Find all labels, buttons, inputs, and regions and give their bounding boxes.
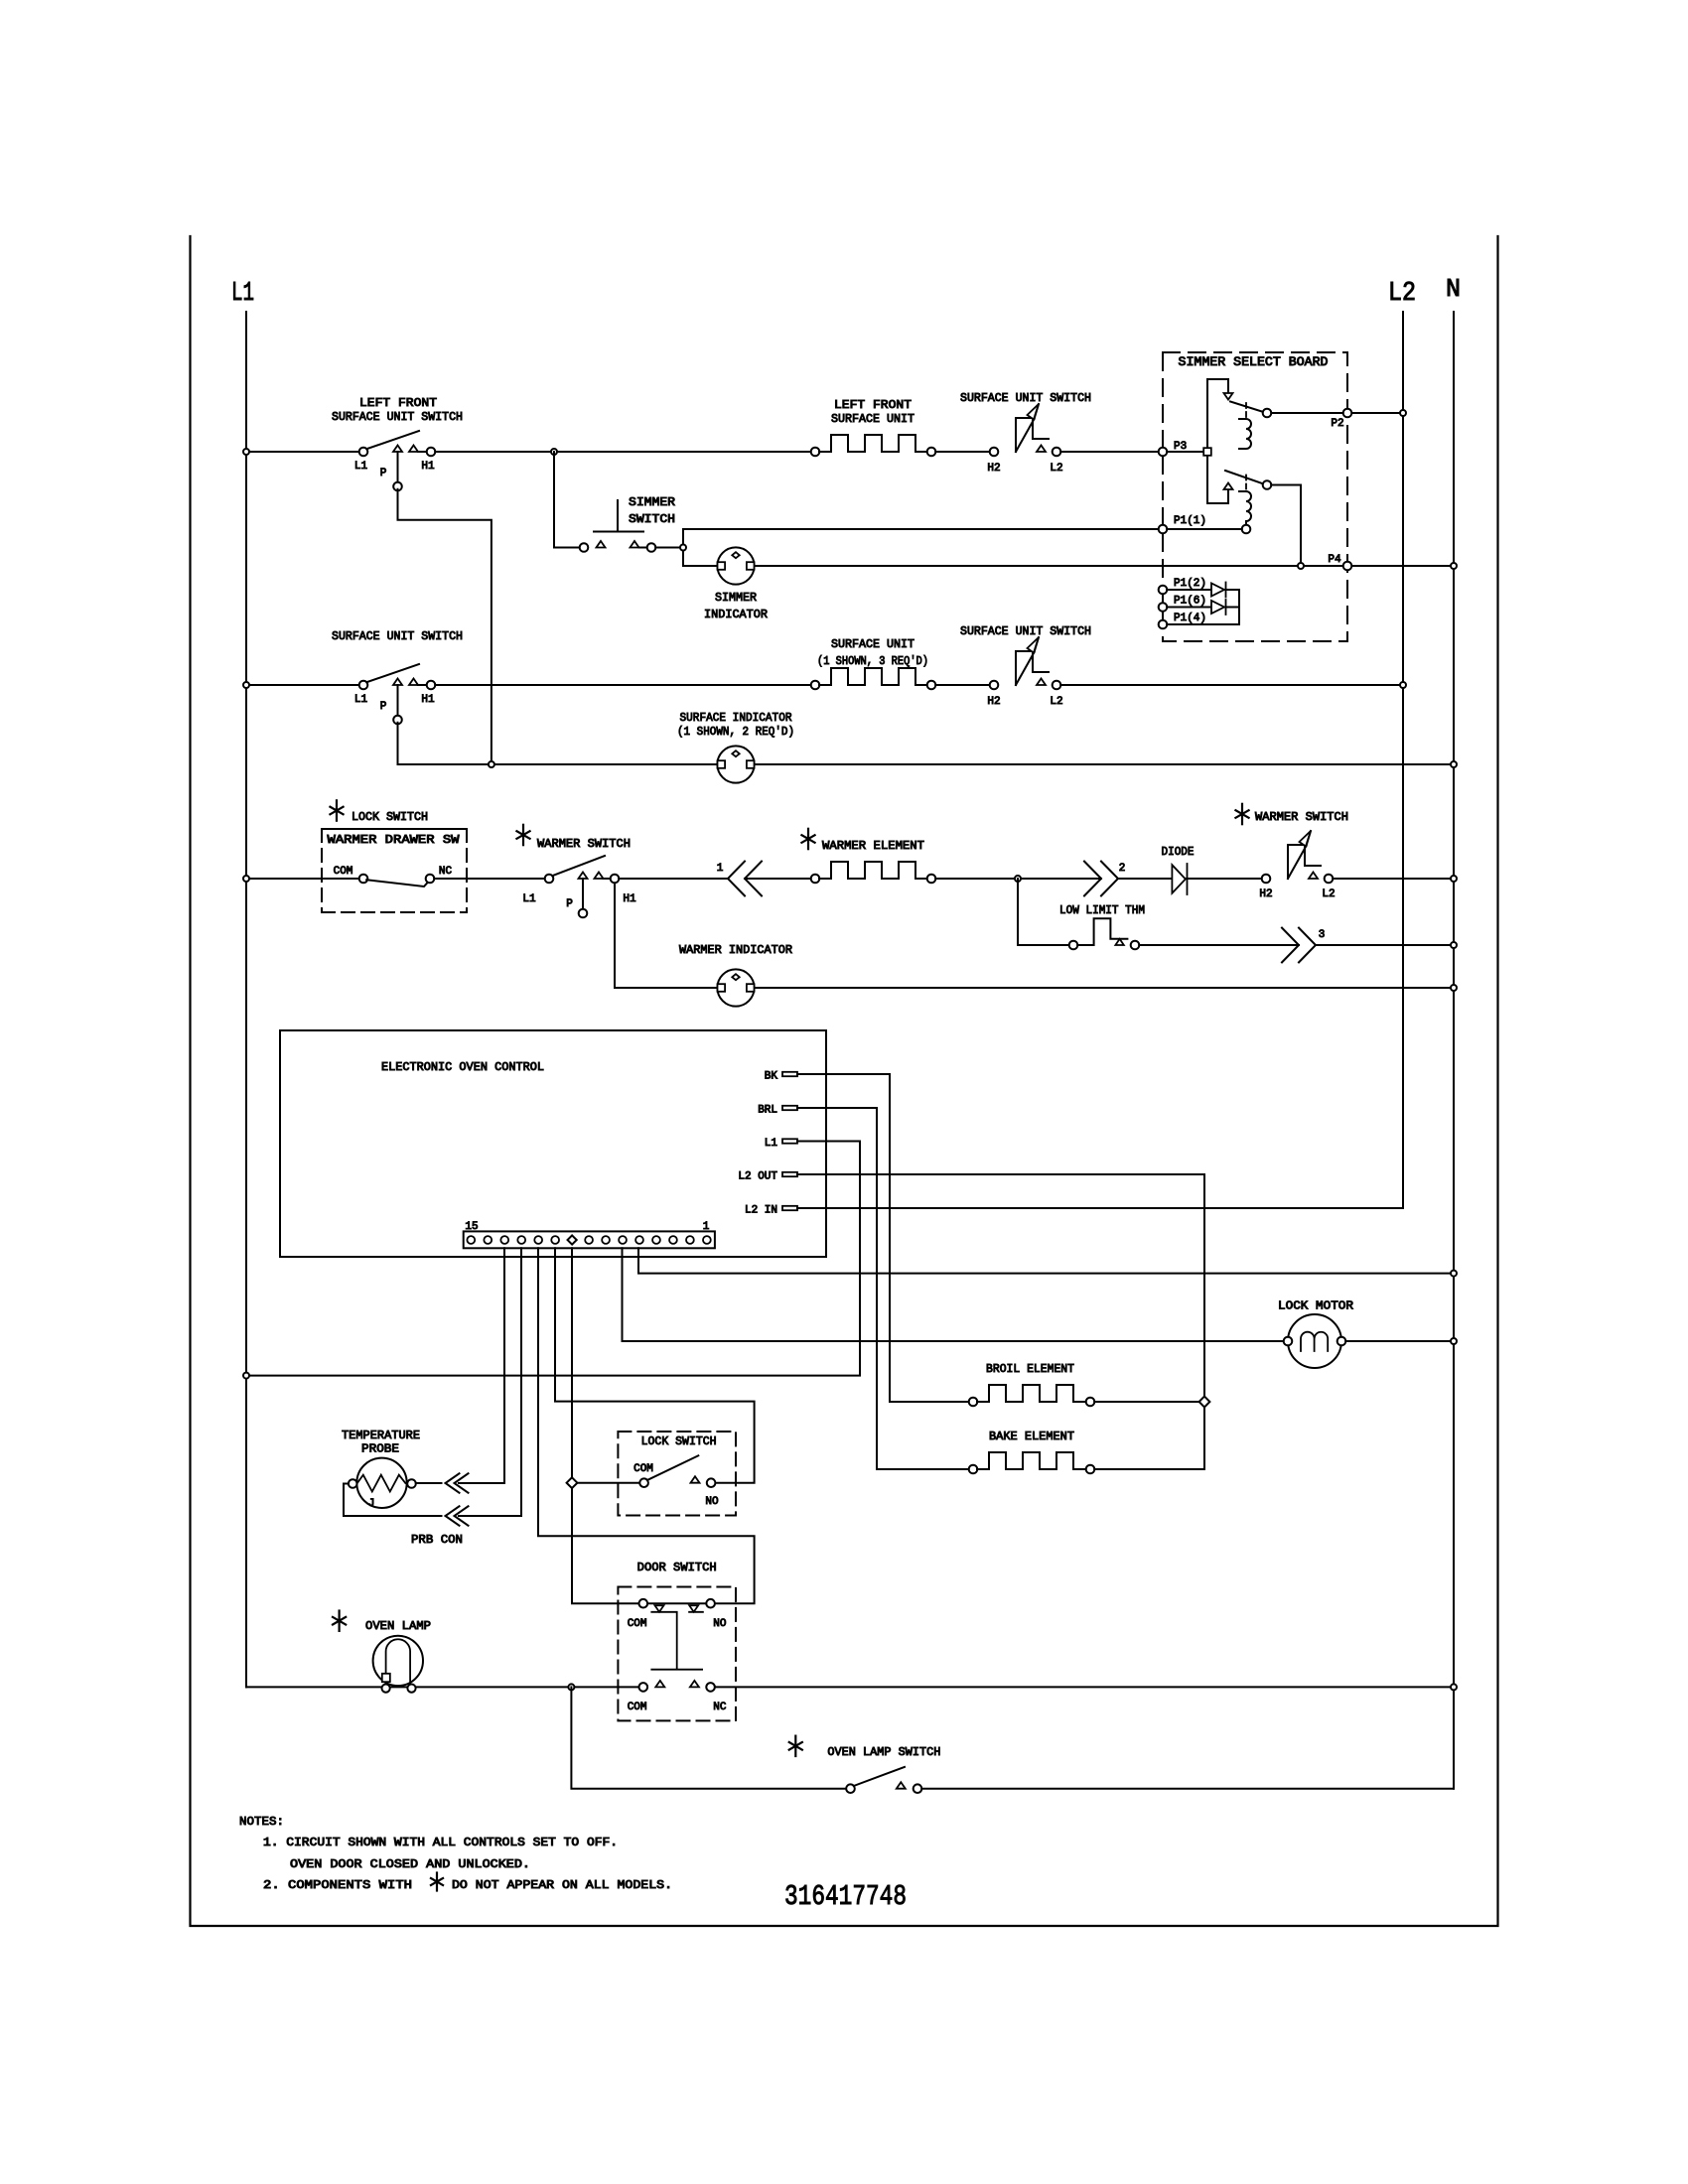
svg-text:H1: H1 [421, 461, 435, 473]
node surface indicator to N bus [1451, 761, 1457, 767]
switch SW5 triangle contact [1037, 679, 1046, 686]
wire relay K1 to P2 [1271, 412, 1403, 414]
wire diode bus vertical [1238, 590, 1240, 624]
svg-text:SURFACE UNIT SWITCH: SURFACE UNIT SWITCH [332, 629, 463, 643]
heating element E3 warmer element [819, 862, 928, 879]
switch SW8 L2 terminal [1325, 875, 1334, 884]
svg-text:J: J [368, 1498, 375, 1510]
wire simmer junction to board P1(1) [683, 528, 1159, 530]
wire lock motor to N bus [1345, 1340, 1454, 1342]
oven lamp left terminal [382, 1685, 390, 1693]
lock switch dashed enclosure [618, 1432, 736, 1516]
switch SW6 COM terminal [359, 875, 368, 884]
wire P1(1) to relay K2 coil [1167, 528, 1241, 530]
node relay2 arm junction on P4 wire [1298, 563, 1304, 569]
node square P3 riser junction [1203, 448, 1211, 456]
wire row2 from L1 to switch [246, 684, 359, 686]
switch SW9 arm [647, 1455, 699, 1480]
heating element E3 left terminal [811, 875, 820, 884]
wire diode D2 to bus [1226, 607, 1240, 609]
switch SW2 triangle contact [1037, 446, 1046, 453]
svg-text:DOOR SWITCH: DOOR SWITCH [637, 1561, 717, 1574]
wire warmer element to connector 2 [935, 878, 1101, 880]
switch SW2 surface unit thermostat symbol [1016, 418, 1049, 452]
svg-text:OVEN LAMP SWITCH: OVEN LAMP SWITCH [827, 1745, 940, 1759]
svg-text:L2: L2 [1050, 696, 1062, 708]
svg-text:L2 IN: L2 IN [745, 1205, 777, 1217]
node simmer junction [680, 545, 686, 551]
svg-text:COM: COM [628, 1702, 647, 1713]
wire pin10 to lock switch NO [555, 1248, 755, 1482]
svg-text:H2: H2 [987, 696, 1000, 708]
node row1 junction to simmer branch [551, 449, 557, 455]
wire pin9 tap to lock COM [577, 1482, 639, 1484]
svg-text:BAKE ELEMENT: BAKE ELEMENT [989, 1430, 1074, 1443]
svg-text:2. COMPONENTS WITH: 2. COMPONENTS WITH [263, 1878, 412, 1892]
oven lamp right terminal [407, 1685, 415, 1693]
wire BRL to bake element [797, 1108, 877, 1469]
svg-text:P1(4): P1(4) [1174, 613, 1206, 624]
simmer select board title [1172, 353, 1335, 369]
thermal switch low limit thermostat [1069, 941, 1078, 950]
switch SW9 lock switch COM terminal [639, 1478, 648, 1487]
relay K2 pivot terminal [1263, 480, 1272, 489]
wire simmer indicator to P4 and N [755, 565, 1454, 567]
switch SW7 warmer switch [545, 875, 554, 884]
wire warmer indicator to N bus [755, 987, 1454, 989]
svg-text:P1(2): P1(2) [1174, 578, 1206, 590]
node P2 to L2 bus [1400, 410, 1406, 416]
wire drawer switch NC to warmer switch L1 [434, 878, 544, 880]
svg-text:INDICATOR: INDICATOR [704, 608, 768, 621]
svg-text:SURFACE UNIT: SURFACE UNIT [831, 637, 914, 651]
svg-text:1. CIRCUIT SHOWN WITH ALL CON: 1. CIRCUIT SHOWN WITH ALL CONTROLS SET T… [263, 1836, 618, 1849]
wire element to H2 [935, 451, 989, 453]
svg-text:L2: L2 [1050, 463, 1062, 475]
relay K2 mechanical link dashed [1245, 476, 1247, 491]
wire row1 P branch down and right [398, 489, 492, 760]
relay K1 mechanical link dashed [1245, 403, 1247, 417]
switch SW2 L2 terminal [1053, 448, 1061, 457]
temperature probe left terminal [349, 1479, 357, 1488]
switch SW10 mechanical link [651, 1612, 703, 1670]
svg-text:H1: H1 [623, 893, 636, 905]
temperature probe RT1 [356, 1458, 406, 1508]
node row3 on L1 bus [243, 876, 249, 882]
wire pin13 to temperature probe top [459, 1248, 504, 1483]
switch SW4 surface unit switch [359, 681, 368, 690]
connector PRB top chevrons [446, 1473, 460, 1492]
svg-text:NC: NC [713, 1702, 727, 1713]
svg-text:P4: P4 [1328, 554, 1341, 566]
svg-text:PROBE: PROBE [361, 1442, 399, 1456]
relay K1 top wire [1207, 379, 1228, 393]
wire lamp row drop to oven lamp switch [571, 1687, 846, 1788]
wire diode D1 to bus [1226, 589, 1240, 591]
svg-text:L1: L1 [354, 461, 368, 473]
bake element E5 right terminal [1086, 1465, 1095, 1474]
wire simmer switch to junction [655, 547, 683, 549]
wire row1 from L1 to switch [246, 451, 359, 453]
connector plug 3 chevrons [1282, 928, 1299, 963]
switch SW11 oven lamp switch [846, 1784, 855, 1793]
switch SW10 lower triangles [655, 1681, 664, 1688]
diode D2 [1211, 601, 1224, 614]
lock motor left terminal [1284, 1337, 1293, 1346]
relay K2 armature arm [1225, 471, 1264, 484]
wire pin5 to N bus [638, 1248, 1454, 1273]
svg-text:(1 SHOWN, 2 REQ'D): (1 SHOWN, 2 REQ'D) [677, 725, 794, 739]
svg-text:L2: L2 [1322, 888, 1335, 900]
svg-text:(1 SHOWN, 3 REQ'D): (1 SHOWN, 3 REQ'D) [817, 654, 928, 668]
relay K1 armature arm [1230, 402, 1264, 413]
warmer drawer switch dashed enclosure [322, 829, 467, 912]
wire EOC L1 to L1 bus [250, 1142, 860, 1376]
switch SW6 warmer drawer switch arm [366, 880, 428, 887]
node P4 to N bus [1451, 563, 1457, 569]
svg-text:TEMPERATURE: TEMPERATURE [342, 1429, 420, 1442]
svg-text:SIMMER: SIMMER [715, 591, 757, 605]
terminal P2 on board edge [1343, 409, 1352, 418]
svg-text:P: P [380, 468, 387, 479]
wire warmer switch H1 to connector 1 [619, 878, 728, 880]
switch SW8 triangle contact [1309, 873, 1318, 880]
svg-text:WARMER SWITCH: WARMER SWITCH [537, 837, 631, 851]
svg-text:LEFT FRONT: LEFT FRONT [834, 398, 912, 412]
node lock motor to N bus [1451, 1338, 1457, 1344]
bake element E5 left terminal [969, 1465, 978, 1474]
node row2 to L2 bus [1400, 682, 1406, 688]
connector plug 1 chevrons [728, 862, 745, 896]
svg-text:L1: L1 [231, 279, 254, 309]
connector PRB bottom chevrons [446, 1506, 460, 1525]
broil element E4 right terminal [1086, 1398, 1095, 1407]
svg-text:LOCK SWITCH: LOCK SWITCH [352, 810, 428, 824]
svg-text:SURFACE INDICATOR: SURFACE INDICATOR [680, 711, 792, 725]
wire connector 2 to diode D3 [1118, 878, 1210, 880]
svg-text:COM: COM [334, 866, 353, 878]
svg-text:SIMMER SELECT BOARD: SIMMER SELECT BOARD [1179, 355, 1329, 369]
wire broil element to L2 OUT bus [1094, 1401, 1204, 1403]
electronic oven control box [280, 1030, 826, 1257]
svg-text:P: P [566, 898, 573, 910]
bake element E5 [977, 1452, 1086, 1469]
svg-text:DIODE: DIODE [1162, 845, 1195, 859]
svg-text:1: 1 [703, 1221, 710, 1233]
relay K1 riser from P3 [1206, 379, 1208, 503]
wire door switch NC to N bus [715, 1686, 1454, 1688]
svg-text:SURFACE UNIT SWITCH: SURFACE UNIT SWITCH [960, 391, 1091, 405]
switch SW5 surface unit thermostat symbol [1016, 651, 1049, 685]
svg-text:LEFT FRONT: LEFT FRONT [359, 396, 437, 410]
wire L2 bus vertical [1402, 312, 1404, 1208]
switch SW5 L2 terminal [1053, 681, 1061, 690]
diode D3 [1172, 865, 1186, 893]
svg-text:PRB CON: PRB CON [411, 1533, 463, 1547]
svg-text:OVEN LAMP: OVEN LAMP [365, 1619, 431, 1633]
heating element E3 right terminal [927, 875, 936, 884]
relay K2 coil terminal [1242, 525, 1251, 534]
switch SW10 door switch lower COM terminal [639, 1683, 648, 1692]
svg-text:NO: NO [713, 1618, 727, 1630]
wire row2 L2 terminal to L2 bus [1060, 684, 1403, 686]
heating element E2 left terminal [811, 681, 820, 690]
svg-text:LOW LIMIT THM: LOW LIMIT THM [1059, 903, 1145, 917]
wire row2 P branch down [398, 723, 718, 764]
switch SW10 upper contact triangles and bar [647, 1602, 708, 1604]
terminal P1(2) [1159, 586, 1168, 595]
terminal P1(6) [1159, 603, 1168, 612]
svg-text:L2: L2 [1388, 279, 1416, 309]
lock motor M1 [1288, 1314, 1341, 1368]
svg-text:SURFACE UNIT SWITCH: SURFACE UNIT SWITCH [332, 410, 463, 424]
svg-text:WARMER INDICATOR: WARMER INDICATOR [679, 943, 792, 957]
node diamond lock COM tap on pin9 wire [567, 1477, 578, 1488]
switch SW9 NO terminal [707, 1478, 716, 1487]
svg-text:BK: BK [765, 1071, 778, 1083]
wire N bus vertical [1453, 312, 1455, 1789]
wire L2 IN to L2 bus [797, 1207, 1403, 1209]
indicator DS2 surface indicator lamp [717, 746, 754, 782]
wire pin11 to door switch NO [538, 1248, 755, 1603]
svg-text:BROIL ELEMENT: BROIL ELEMENT [986, 1362, 1074, 1376]
wire row2 switch H1 to element [435, 684, 811, 686]
EOC connector pin strip [464, 1231, 715, 1248]
relay K2 bottom wire [1207, 490, 1228, 504]
wire row1 switch H1 to element [435, 451, 811, 453]
svg-text:15: 15 [465, 1221, 478, 1233]
broil element E4 [977, 1385, 1086, 1402]
svg-text:N: N [1446, 274, 1461, 304]
wire junction drop to simmer switch [553, 452, 555, 548]
svg-text:ELECTRONIC OVEN CONTROL: ELECTRONIC OVEN CONTROL [381, 1060, 544, 1074]
svg-text:1: 1 [717, 863, 724, 875]
label oven lamp switch with asterisk [789, 1736, 802, 1756]
wire BRL riser to bake element [877, 1468, 969, 1470]
label lock switch with asterisk [330, 800, 343, 820]
svg-text:SWITCH: SWITCH [629, 512, 675, 526]
svg-text:P1(1): P1(1) [1174, 515, 1206, 527]
switch SW10 door switch upper COM terminal [639, 1599, 648, 1608]
svg-text:L1: L1 [765, 1138, 778, 1150]
svg-text:WARMER SWITCH: WARMER SWITCH [1255, 810, 1348, 824]
svg-text:COM: COM [633, 1463, 653, 1475]
wire warmer switch H1 drop to indicator [615, 885, 717, 989]
label warmer switch with asterisk [516, 825, 529, 845]
switch SW8 H2 terminal [1262, 875, 1271, 884]
wire low limit branch drop [1017, 879, 1019, 945]
label warmer element with asterisk [801, 829, 814, 849]
svg-text:LOCK SWITCH: LOCK SWITCH [641, 1434, 717, 1448]
node warmer junction to low limit branch [1015, 876, 1021, 882]
node door NC row to N bus [1451, 1684, 1457, 1690]
svg-text:NC: NC [439, 866, 453, 878]
wire simmer junction riser [682, 529, 684, 566]
wire low limit to connector 3 [1139, 944, 1299, 946]
wire simmer junction to indicator [683, 565, 717, 567]
wire BK riser to broil element [890, 1401, 969, 1403]
diode D1 [1211, 584, 1224, 597]
node pin5 wire to N bus [1451, 1271, 1457, 1277]
wire pin9 to door switch COM [572, 1248, 639, 1603]
heating element E1 left terminal [811, 448, 820, 457]
switch SW10 NO terminal upper [706, 1599, 715, 1608]
wire probe right to connector [416, 1482, 442, 1484]
oven lamp DS4 [373, 1636, 423, 1686]
node EOC L1 wire to L1 bus [243, 1373, 249, 1379]
wire oven lamp switch to N bus [921, 1788, 1454, 1790]
svg-text:3: 3 [1319, 929, 1326, 941]
svg-text:WARMER ELEMENT: WARMER ELEMENT [822, 839, 924, 853]
relay K1 fixed contact triangle [1224, 393, 1233, 400]
svg-text:H1: H1 [421, 694, 435, 706]
label warmer switch 2 with asterisk [1235, 804, 1248, 824]
relay K1 pivot terminal [1263, 409, 1272, 418]
wire pin6 to lock motor [623, 1248, 1284, 1341]
svg-text:SIMMER: SIMMER [629, 495, 675, 509]
svg-text:P: P [380, 701, 387, 713]
svg-text:L1: L1 [522, 893, 536, 905]
svg-text:L2 OUT: L2 OUT [738, 1171, 777, 1183]
simmer select board dashed enclosure [1163, 352, 1347, 641]
pin strip pin circles [467, 1236, 475, 1244]
wire surface indicator to N bus [755, 763, 1454, 765]
wire P1(4) to bus [1167, 623, 1239, 625]
broil element E4 left terminal [969, 1398, 978, 1407]
svg-text:NOTES:: NOTES: [239, 1815, 284, 1829]
wire relay K2 pivot down to P4 [1271, 485, 1301, 563]
node warmer indicator to N bus [1451, 985, 1457, 991]
svg-text:BRL: BRL [758, 1105, 777, 1117]
svg-text:P1(6): P1(6) [1174, 596, 1206, 608]
wire row1 L2 terminal to board P3 [1060, 451, 1158, 453]
switch SW3 simmer switch pushbutton [580, 543, 589, 552]
switch SW8 warmer thermostat symbol [1288, 845, 1321, 879]
terminal P1(4) [1159, 620, 1168, 629]
wire probe top connector to pin13 [459, 1482, 469, 1484]
lock motor right terminal [1337, 1337, 1346, 1346]
wire diode D3 to warmer switch H2 [1188, 878, 1262, 880]
heating element E1 left front surface unit [819, 435, 928, 452]
svg-text:P2: P2 [1331, 418, 1343, 430]
svg-text:SURFACE UNIT SWITCH: SURFACE UNIT SWITCH [960, 624, 1091, 638]
heating element E2 right terminal [927, 681, 936, 690]
node row1 on L1 bus [243, 449, 249, 455]
wire oven lamp row from L1 bus [246, 1686, 639, 1688]
svg-text:2: 2 [1119, 863, 1126, 875]
page border frame (left, right, bottom) [191, 236, 1498, 1926]
temperature probe right terminal [407, 1479, 416, 1488]
node P branches junction [489, 761, 494, 767]
node low limit row to N bus [1451, 942, 1457, 948]
wire P3 to relay riser [1167, 451, 1207, 453]
svg-text:NO: NO [705, 1496, 719, 1508]
wire probe left loop [344, 1484, 442, 1517]
node oven lamp row to lamp switch drop [568, 1684, 574, 1690]
svg-text:LOCK MOTOR: LOCK MOTOR [1278, 1299, 1353, 1313]
indicator DS3 warmer indicator lamp [717, 969, 754, 1006]
wire bake element to L2 OUT bus [1094, 1468, 1204, 1470]
svg-text:L1: L1 [354, 694, 368, 706]
switch SW10 NC terminal lower [706, 1683, 715, 1692]
node diamond broil return junction [1199, 1397, 1210, 1408]
svg-text:H2: H2 [1259, 888, 1272, 900]
svg-text:OVEN DOOR CLOSED AND UNLOCKED.: OVEN DOOR CLOSED AND UNLOCKED. [290, 1857, 530, 1871]
indicator DS1 simmer indicator lamp [717, 547, 754, 584]
terminal P4 on board edge [1343, 562, 1352, 571]
switch SW5 H2 terminal [990, 681, 999, 690]
svg-text:SURFACE UNIT: SURFACE UNIT [831, 412, 914, 426]
relay K2 fixed contact triangle [1224, 483, 1233, 490]
svg-text:COM: COM [628, 1618, 647, 1630]
switch SW9 triangle contact [691, 1476, 700, 1483]
switch SW2 H2 terminal [990, 448, 999, 457]
wire connector 3 to N bus [1316, 944, 1454, 946]
heating element E1 right terminal [927, 448, 936, 457]
terminal P3 on board edge [1159, 448, 1168, 457]
relay K1 coil [1239, 419, 1251, 449]
svg-text:WARMER DRAWER SW: WARMER DRAWER SW [328, 833, 461, 847]
switch SW1 left front surface unit switch [359, 448, 368, 457]
node row2 on L1 bus [243, 682, 249, 688]
wire P1(6) to diode D2 [1167, 607, 1211, 609]
label oven lamp with asterisk [333, 1611, 346, 1631]
wire element E2 to H2 [935, 684, 989, 686]
wire BK to broil element [797, 1074, 890, 1402]
node warmer row to N bus [1451, 876, 1457, 882]
wire warmer row to N bus [1333, 878, 1454, 880]
heating element E2 surface unit [819, 668, 928, 685]
wire connector 1 to warmer element [745, 878, 811, 880]
svg-text:DO NOT APPEAR ON ALL MODELS.: DO NOT APPEAR ON ALL MODELS. [452, 1878, 672, 1892]
connector plug 2 chevrons [1084, 862, 1101, 896]
switch SW6 NC terminal [426, 875, 435, 884]
wire row3 from L1 through warmer drawer switch [246, 878, 359, 880]
terminal P1(1) on board edge [1159, 525, 1168, 534]
wire P1(2) to diode D1 [1167, 589, 1211, 591]
relay K2 coil [1239, 491, 1251, 525]
wire L2 OUT to elements return bus [797, 1174, 1204, 1469]
wire L1 bus vertical [245, 312, 247, 1687]
svg-text:H2: H2 [987, 463, 1000, 475]
svg-text:316417748: 316417748 [784, 1880, 907, 1913]
door switch dashed enclosure [618, 1587, 736, 1721]
wire pin12 to probe connector bottom [459, 1248, 521, 1516]
